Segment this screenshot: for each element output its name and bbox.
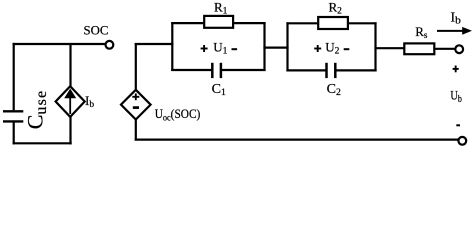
- svg-text:Uoc(SOC): Uoc(SOC): [155, 107, 201, 123]
- wire top rail of SOC tracker: [13, 43, 105, 45]
- node RC1 left vertical: [171, 22, 173, 71]
- wire RC2 bottom right: [336, 69, 377, 71]
- voltage source U_oc (diamond with + -): [121, 90, 151, 120]
- node RC2 left vertical: [286, 22, 288, 71]
- svg-text:R2: R2: [329, 0, 343, 17]
- current source I_b (diamond with up arrow): [56, 86, 85, 117]
- wire bottom rail of SOC tracker: [13, 142, 72, 144]
- wire RC2 bottom left: [286, 69, 325, 71]
- node SOC terminal: [106, 41, 114, 49]
- wire left branch lower: [13, 122, 15, 144]
- wire Rs to terminal: [434, 48, 455, 50]
- svg-text:C1: C1: [212, 82, 226, 98]
- wire RC2 to Rs: [374, 47, 405, 49]
- label plus of U1: [201, 45, 208, 52]
- svg-text:U1: U1: [213, 39, 227, 56]
- label minus of U1: [232, 48, 238, 50]
- wire main rail U_oc to RC1: [135, 43, 174, 45]
- svg-text:Rs: Rs: [415, 24, 428, 40]
- wire from main rail down to U_oc source: [135, 43, 137, 90]
- label plus terminal: [453, 66, 459, 73]
- label plus of U2: [314, 45, 321, 52]
- wire RC2 top left: [286, 22, 319, 24]
- resistor R2: [318, 17, 348, 29]
- wire RC1 to RC2: [263, 46, 288, 48]
- arrow I_b current direction: [437, 27, 472, 35]
- svg-text:Cuse: Cuse: [23, 90, 51, 130]
- resistor Rs: [404, 43, 434, 54]
- svg-text:C2: C2: [327, 82, 341, 98]
- wire bottom rail of main circuit: [135, 139, 458, 141]
- svg-text:Ib: Ib: [451, 9, 462, 26]
- label minus terminal: [456, 124, 460, 126]
- wire left branch upper (to C_use top plate): [13, 43, 15, 110]
- wire RC2 top right: [348, 22, 377, 24]
- resistor R1: [204, 16, 233, 28]
- label minus of U2: [344, 48, 350, 50]
- capacitor C_use: [3, 111, 23, 121]
- node terminal + (top right): [455, 45, 463, 53]
- wire from bottom rail up to I_b source: [69, 116, 71, 145]
- svg-text:Ib: Ib: [85, 93, 94, 110]
- svg-text:U2: U2: [325, 39, 339, 56]
- wire RC1 top left: [171, 22, 205, 24]
- wire RC1 bottom left: [171, 69, 211, 71]
- svg-text:SOC: SOC: [84, 24, 109, 38]
- node RC2 right vertical: [374, 22, 376, 71]
- wire RC1 bottom right: [222, 69, 266, 71]
- wire from top rail down to I_b source: [69, 43, 71, 88]
- svg-text:Ub: Ub: [450, 88, 462, 105]
- wire from U_oc source down to bottom rail: [135, 119, 137, 140]
- wire RC1 top right: [233, 22, 266, 24]
- capacitor C1: [212, 63, 221, 78]
- capacitor C2: [327, 63, 336, 78]
- node RC1 right vertical: [263, 22, 265, 71]
- node terminal - (bottom right): [458, 137, 466, 145]
- svg-text:R1: R1: [214, 0, 228, 17]
